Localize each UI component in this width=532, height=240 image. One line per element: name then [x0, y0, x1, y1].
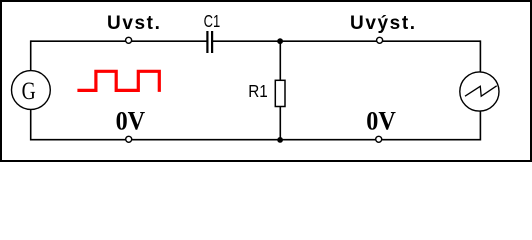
svg-text:Uvýst.: Uvýst.: [350, 13, 417, 34]
signal waveform square wave: [77, 71, 159, 92]
wire top left horizontal: [31, 40, 207, 42]
node Uvst open terminal: [126, 37, 132, 43]
oscilloscope U1 circle: [460, 72, 499, 111]
capacitor C1 plates: [206, 31, 208, 53]
generator G circle: [12, 71, 51, 110]
resistor R1 body: [275, 80, 285, 106]
svg-text:C1: C1: [204, 12, 221, 31]
wire left vertical upper: [30, 40, 32, 71]
wire R1 lower lead: [279, 107, 281, 140]
wire right vertical upper: [479, 40, 481, 72]
node 0V right open terminal: [376, 136, 382, 142]
wire left vertical lower: [30, 109, 32, 140]
wire right vertical lower: [479, 111, 481, 141]
svg-text:0V: 0V: [116, 108, 146, 136]
junction dot bottom: [277, 137, 283, 143]
svg-text:Uvst.: Uvst.: [107, 13, 161, 34]
node 0V left open terminal: [126, 136, 132, 142]
wire R1 upper lead: [279, 41, 281, 80]
wire bottom horizontal: [31, 139, 481, 141]
svg-text:0V: 0V: [366, 108, 396, 136]
oscilloscope U1 sawtooth symbol: [465, 86, 497, 96]
svg-text:R1: R1: [248, 81, 268, 101]
node Uvyst open terminal: [377, 37, 383, 43]
wire top right horizontal: [213, 40, 481, 42]
junction dot top: [277, 38, 283, 44]
svg-text:G: G: [22, 77, 36, 105]
